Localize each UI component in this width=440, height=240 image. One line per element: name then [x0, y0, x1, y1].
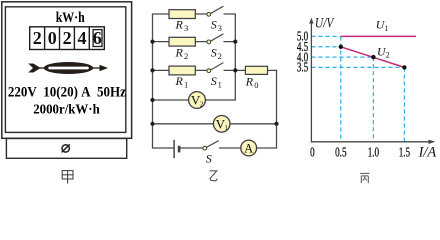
- svg-text:A: A: [244, 142, 253, 156]
- gridline 3.5 horizontal: [311, 66, 404, 68]
- wire left vertical: [152, 14, 154, 148]
- ammeter A: [241, 140, 257, 156]
- svg-text:S: S: [211, 45, 217, 59]
- resistor R1: [169, 66, 195, 75]
- svg-text:2: 2: [386, 51, 390, 60]
- gridline 1.5 vertical: [403, 67, 405, 141]
- resistor R3: [169, 10, 195, 19]
- gridline 4.0 horizontal: [311, 56, 373, 58]
- svg-text:0: 0: [254, 80, 258, 90]
- svg-text:3: 3: [218, 23, 222, 33]
- svg-text:1: 1: [218, 80, 222, 90]
- wire bottom left: [153, 147, 174, 149]
- svg-text:U/V: U/V: [315, 15, 335, 31]
- wire S2 to middle vertical: [224, 41, 235, 43]
- junction middle branch2: [233, 40, 237, 44]
- svg-text:0.5: 0.5: [335, 146, 347, 160]
- junction right V1 row: [274, 122, 278, 126]
- junction left branch1: [150, 68, 154, 72]
- svg-text:0: 0: [48, 28, 57, 48]
- svg-text:1: 1: [184, 80, 188, 90]
- svg-text:3.5: 3.5: [297, 61, 309, 75]
- wire branch3 left segment: [153, 13, 170, 15]
- svg-text:1: 1: [225, 124, 229, 132]
- svg-text:R: R: [245, 74, 254, 88]
- svg-text:2: 2: [184, 51, 188, 61]
- wire branch2 left segment: [153, 41, 170, 43]
- svg-text:2000r/kW·h: 2000r/kW·h: [33, 102, 100, 117]
- data point (1.5, 3.5): [402, 65, 406, 69]
- battery: [174, 140, 179, 158]
- voltmeter V1: [213, 116, 230, 133]
- junction left V1 row: [150, 122, 154, 126]
- svg-text:R: R: [175, 45, 184, 59]
- data point (0.5, 4.5): [339, 45, 343, 49]
- wire middle vertical: [234, 14, 236, 100]
- svg-text:0: 0: [310, 146, 315, 160]
- svg-text:2: 2: [33, 28, 42, 48]
- U1 line: [341, 35, 416, 37]
- junction middle branch1: [233, 68, 237, 72]
- svg-text:4: 4: [78, 28, 87, 48]
- svg-text:220V 10(20) A 50Hz: 220V 10(20) A 50Hz: [8, 85, 126, 101]
- voltmeter V2: [189, 92, 206, 109]
- data point (1.0, 4.0): [371, 55, 375, 59]
- switch S1: [207, 63, 223, 73]
- resistor R0: [245, 66, 267, 74]
- wire R1 to S1: [195, 69, 207, 71]
- wire branch1 left segment: [153, 69, 170, 71]
- wire S3 to middle vertical: [224, 13, 235, 15]
- wire bottom right: [219, 147, 276, 149]
- svg-text:R: R: [175, 18, 184, 32]
- wire R3 to S3: [195, 13, 207, 15]
- label yi (乙): [210, 171, 218, 181]
- svg-text:1: 1: [384, 24, 388, 33]
- gridline 1.0 vertical: [372, 57, 374, 142]
- wire V2 row: [153, 99, 236, 101]
- svg-text:1.0: 1.0: [368, 146, 380, 160]
- switch S: [203, 141, 219, 150]
- svg-text:S: S: [211, 74, 217, 88]
- junction left branch2: [150, 40, 154, 44]
- wire R0 to right vertical: [268, 69, 277, 71]
- U2 line: [341, 47, 405, 68]
- kWh meter outer case: [2, 2, 132, 139]
- gridline 0.5 vertical: [340, 36, 342, 141]
- svg-text:2: 2: [218, 51, 222, 61]
- wire V1 row: [153, 123, 277, 125]
- resistor R2: [169, 37, 195, 46]
- kWh meter inner panel: [5, 7, 125, 133]
- label jia (甲): [62, 171, 73, 184]
- svg-text:6: 6: [93, 28, 102, 48]
- svg-text:S: S: [206, 151, 212, 165]
- switch S2: [207, 34, 223, 44]
- svg-text:R: R: [175, 74, 184, 88]
- wire S1 to R0: [224, 69, 245, 71]
- switch S3: [207, 6, 223, 16]
- svg-text:S: S: [211, 18, 217, 32]
- wire bottom middle: [180, 147, 204, 149]
- svg-text:2: 2: [200, 100, 204, 108]
- digits 2 0 2 4 6: [33, 28, 102, 48]
- gridline 5.0 horizontal: [311, 35, 340, 37]
- digit register frame: [30, 27, 105, 50]
- svg-text:3: 3: [184, 23, 188, 33]
- svg-text:2: 2: [63, 28, 72, 48]
- label bing (丙): [360, 173, 369, 183]
- decimal digit frame: [93, 30, 102, 47]
- svg-text:I/A: I/A: [418, 145, 437, 161]
- meter base: [6, 139, 126, 159]
- junction left V2 row: [150, 98, 154, 102]
- y-axis: [309, 18, 435, 144]
- gridline 4.5 horizontal: [311, 46, 340, 48]
- svg-text:1.5: 1.5: [399, 146, 411, 160]
- svg-text:kW·h: kW·h: [56, 10, 85, 26]
- screw head: [62, 144, 70, 152]
- wire R2 to S2: [195, 41, 207, 43]
- wire right vertical: [276, 70, 278, 148]
- rotating disc symbol: [28, 62, 108, 74]
- x-axis: [311, 141, 430, 143]
